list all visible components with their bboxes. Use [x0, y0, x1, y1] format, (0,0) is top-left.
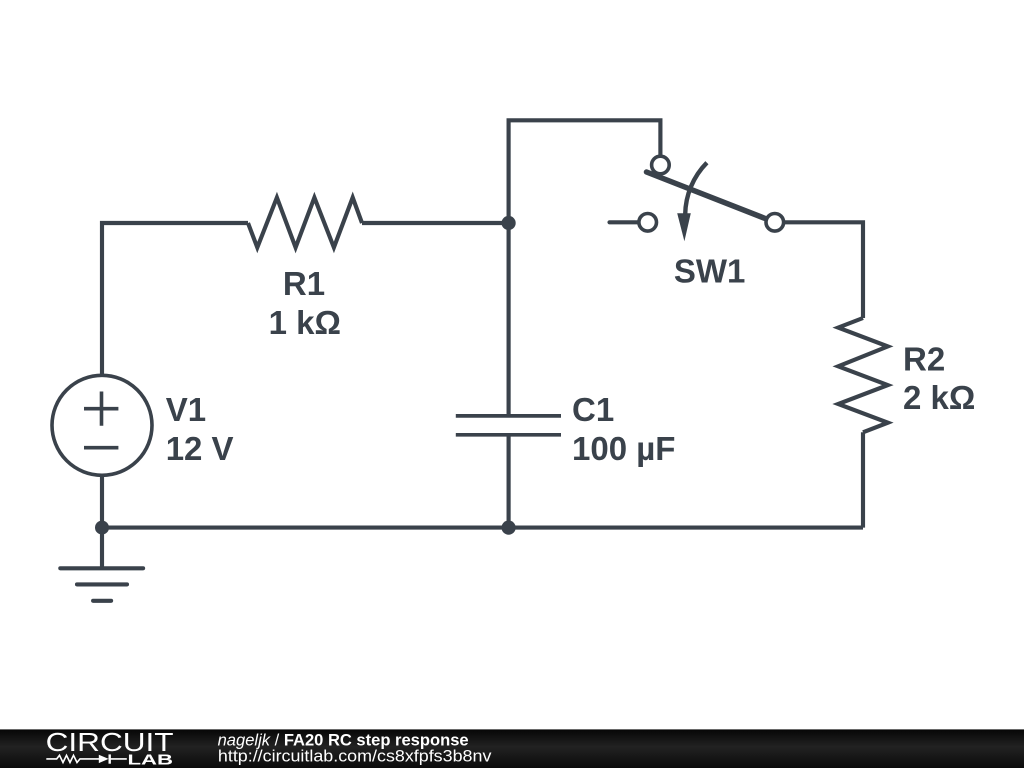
switch SW1: [639, 156, 784, 241]
wire C1 bottom lead: [507, 435, 511, 528]
svg-text:2 kΩ: 2 kΩ: [903, 379, 975, 416]
SW1 arrowhead: [677, 213, 691, 241]
capacitor C1 plates: [456, 416, 561, 435]
voltage source V1: [52, 375, 152, 475]
SW1 closed throw terminal circle: [766, 214, 784, 232]
wire switch middle terminal stub: [610, 220, 639, 224]
wire left rail from V1 top to top-left corner to R1: [102, 223, 248, 375]
wire R2 bottom to bottom rail: [861, 432, 865, 527]
wire ground stub: [100, 528, 104, 567]
svg-text:1 kΩ: 1 kΩ: [269, 304, 341, 341]
node A junction dot (R1/C1/switch): [502, 216, 516, 230]
svg-text:SW1: SW1: [674, 253, 746, 290]
SW1 open throw terminal circle: [639, 214, 657, 232]
CircuitLab logo mini schematic: [46, 754, 127, 763]
wire C1 top lead: [507, 223, 511, 416]
node B junction dot (C1 bottom / bottom rail): [502, 521, 516, 535]
svg-text:R1: R1: [283, 265, 325, 302]
svg-text:100 µF: 100 µF: [572, 430, 675, 467]
wire node A riser to top rail and over to switch: [509, 120, 661, 223]
wire R1 to node A: [362, 221, 509, 225]
resistor R2: [838, 318, 888, 432]
svg-text:http://circuitlab.com/cs8xfpfs: http://circuitlab.com/cs8xfpfs3b8nv: [218, 746, 492, 765]
svg-text:C1: C1: [572, 391, 614, 428]
wire bottom rail: [102, 526, 863, 530]
wire V1 bottom lead: [100, 476, 104, 528]
resistor R1: [248, 198, 362, 248]
SW1 pivot terminal circle: [652, 156, 670, 174]
ground: [60, 568, 143, 601]
svg-text:V1: V1: [166, 391, 206, 428]
wire switch right terminal to R2 top: [784, 222, 863, 318]
node C junction dot (V1 / ground): [95, 521, 109, 535]
svg-text:LAB: LAB: [128, 751, 174, 768]
svg-text:R2: R2: [903, 340, 945, 377]
svg-text:12 V: 12 V: [166, 430, 234, 467]
SW1 blade: [647, 172, 767, 219]
SW1 actuation arrow arc: [685, 163, 707, 215]
